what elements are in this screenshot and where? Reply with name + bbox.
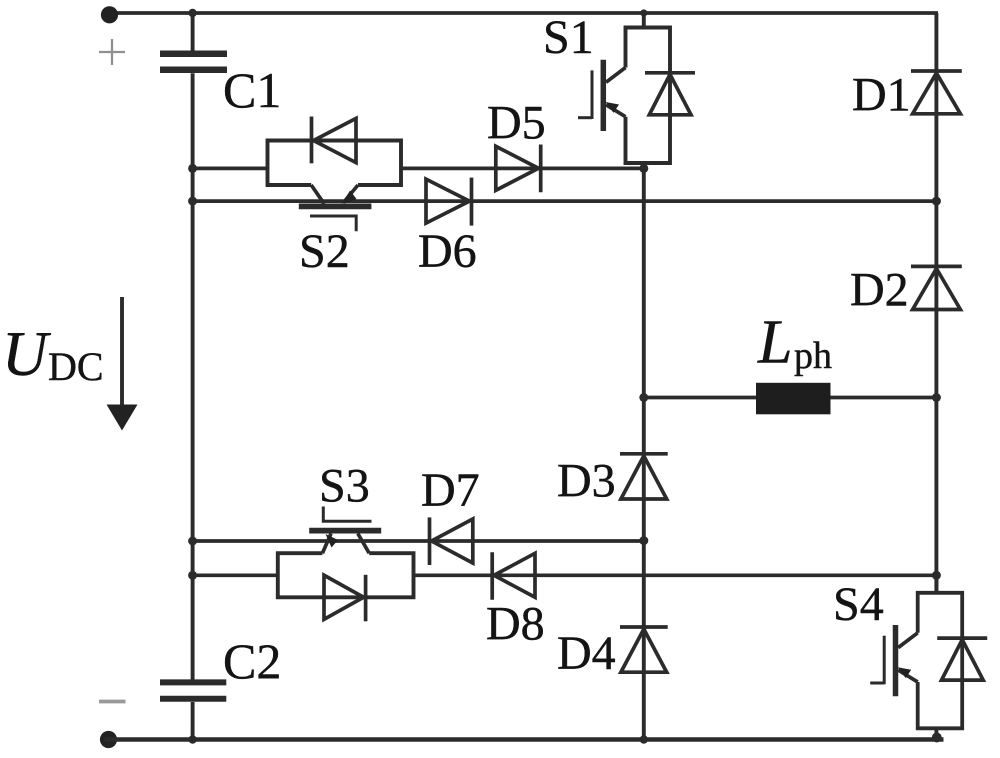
igbt S4 body bar [893, 625, 899, 696]
igbt S4 gate bar [883, 636, 886, 685]
diode D5 [496, 145, 541, 193]
svg-text:S1: S1 [543, 11, 594, 64]
wire right bus [934, 13, 938, 593]
capacitor C2 [160, 682, 226, 698]
wire rail4 right segment through D8 [414, 573, 937, 577]
svg-text:D4: D4 [557, 627, 616, 680]
igbt S2 body bar [299, 203, 372, 209]
svg-text:S4: S4 [833, 578, 884, 631]
wire rail2 full [193, 199, 937, 203]
svg-text:L: L [757, 309, 792, 377]
svg-text:D3: D3 [557, 455, 616, 508]
diode D1 [911, 71, 962, 114]
igbt S1 box [626, 28, 671, 164]
svg-text:ph: ph [794, 335, 832, 377]
igbt S3 emitter lead [322, 534, 331, 554]
node positive terminal dot [101, 6, 118, 23]
igbt S2 emitter lead [344, 185, 359, 203]
wire left bus lower [191, 702, 195, 740]
wire rail4 left segment [193, 573, 278, 577]
igbt S2 box [268, 141, 402, 186]
diode D7 [430, 517, 473, 565]
svg-text:C2: C2 [223, 633, 281, 689]
igbt S2 gate lead [310, 216, 356, 231]
wire left bus upper [191, 13, 195, 51]
wire rail3 [193, 539, 644, 543]
igbt S3 antiparallel diode [324, 575, 366, 622]
wire left bus middle [191, 73, 195, 680]
node junction rail4-right [932, 571, 941, 580]
diode D3 [620, 454, 668, 499]
igbt S3 box [278, 553, 414, 597]
igbt S4 antiparallel diode [937, 638, 987, 680]
svg-text:D7: D7 [421, 464, 480, 517]
igbt S1 gate bar [591, 70, 594, 119]
igbt S4 box [918, 593, 963, 729]
node junction rail1-left [188, 164, 197, 173]
node junction rail4-left [188, 571, 197, 580]
diode D2 [911, 266, 962, 309]
igbt S1 wire to rail1 [642, 163, 646, 172]
igbt S3 emitter arrow [326, 534, 339, 548]
svg-text:S2: S2 [299, 225, 350, 278]
node junction phase-left [639, 393, 648, 402]
svg-text:D5: D5 [487, 97, 546, 150]
igbt S4 wire to bottom rail [934, 728, 938, 739]
svg-text:C1: C1 [223, 62, 281, 118]
label + [99, 39, 125, 65]
igbt S3 gate lead [323, 507, 371, 522]
node junction S4 bottom [932, 733, 942, 743]
svg-text:D2: D2 [850, 264, 909, 317]
wire rail1 right segment through D5 [401, 167, 644, 171]
igbt S3 body bar [309, 528, 381, 534]
igbt S1 emitter lead [606, 105, 626, 117]
node junction top-left [188, 9, 196, 17]
arrow UDC direction [107, 297, 138, 431]
node junction rail1-right [639, 164, 648, 173]
node junction rail2-right [932, 197, 941, 206]
capacitor C1 [160, 54, 227, 70]
node junction phase-right [932, 393, 941, 402]
igbt S2 emitter arrow [342, 191, 357, 204]
node junction bottom-left [188, 735, 196, 743]
label Lph [757, 309, 832, 378]
wire phase rail [644, 396, 937, 400]
wire rail1 left segment [193, 167, 268, 171]
igbt S1 emitter arrow [606, 102, 620, 113]
node junction center-bottom [640, 735, 648, 743]
wire center bus [642, 168, 646, 740]
wire top rail [109, 11, 938, 15]
svg-text:DC: DC [48, 344, 104, 389]
wire bottom rail [105, 737, 944, 742]
svg-text:D1: D1 [852, 69, 911, 122]
igbt S1 wire to top rail [642, 13, 646, 28]
diode D4 [620, 627, 668, 672]
svg-text:U: U [2, 319, 51, 389]
node junction S1 top [640, 9, 647, 16]
igbt S2 collector lead [311, 185, 324, 204]
svg-text:S3: S3 [319, 460, 370, 513]
diode D6 [426, 178, 472, 226]
igbt S1 collector lead [606, 68, 626, 83]
svg-text:D6: D6 [418, 225, 477, 278]
node junction rail3-right [639, 536, 648, 545]
inductor Lph [756, 383, 831, 415]
igbt S1 gate lead [578, 116, 592, 119]
node junction rail2-left [188, 197, 197, 206]
node junction rail3-left [188, 537, 197, 546]
igbt S1 body bar [601, 60, 607, 131]
igbt S4 emitter lead [898, 670, 918, 682]
igbt S4 emitter arrow [898, 667, 912, 678]
node negative terminal dot [100, 731, 117, 748]
igbt S2 antiparallel diode [312, 117, 357, 164]
svg-text:D8: D8 [486, 598, 545, 651]
igbt S3 collector lead [358, 534, 369, 554]
igbt S4 wire to rail4 [934, 575, 938, 593]
label minus [99, 700, 126, 704]
diode D8 [492, 552, 535, 600]
igbt S4 gate lead [870, 682, 884, 685]
igbt S4 collector lead [898, 633, 918, 648]
igbt S1 antiparallel diode [645, 73, 695, 115]
label UDC [2, 319, 104, 389]
